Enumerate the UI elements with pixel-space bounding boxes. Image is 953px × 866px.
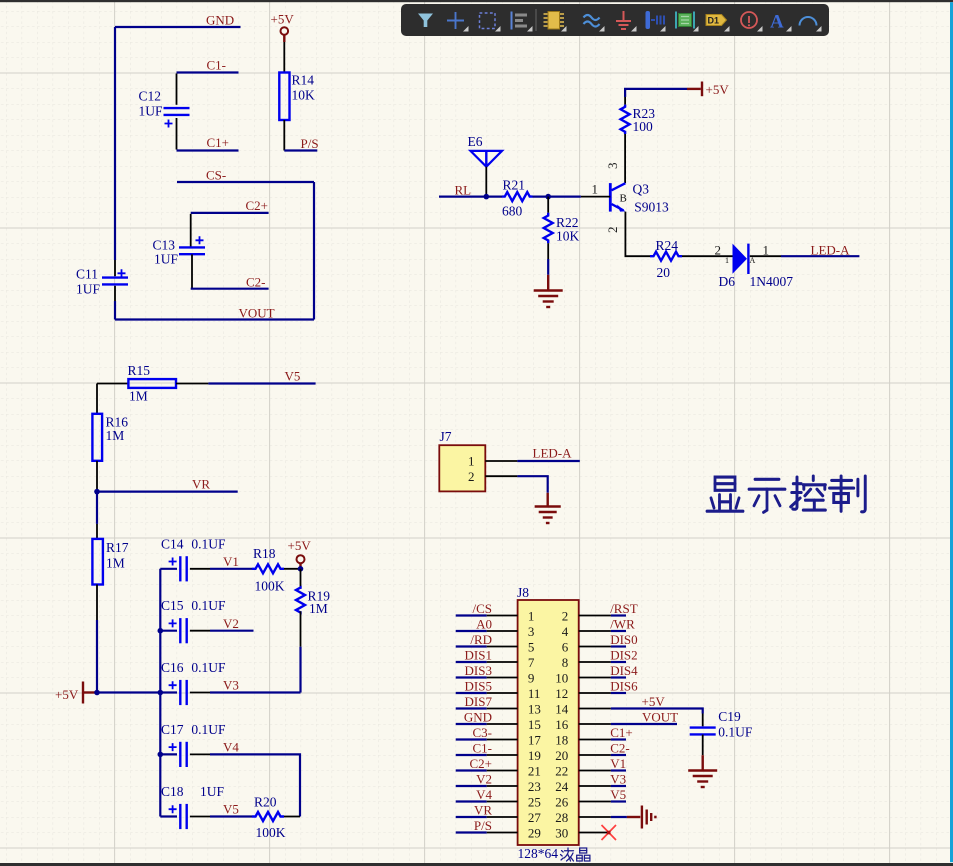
svg-text:12: 12 — [555, 686, 568, 701]
J8 pin number 13 — [528, 701, 541, 716]
J8 pin 29 wire — [456, 831, 518, 833]
svg-text:13: 13 — [528, 701, 541, 716]
net label DIS3 — [465, 663, 492, 678]
toolbar icon IC part — [544, 12, 565, 30]
resistor R15 — [97, 363, 208, 404]
svg-text:J7: J7 — [440, 429, 452, 444]
wire C1- net — [177, 71, 239, 73]
net label C1+ — [610, 725, 633, 740]
svg-text:C18: C18 — [161, 784, 184, 799]
J8 pin number 19 — [528, 748, 541, 763]
ground at pin 28 (rotated) — [627, 806, 656, 829]
wire left vertical — [114, 27, 116, 276]
svg-text:+5V: +5V — [271, 12, 295, 27]
svg-text:C1+: C1+ — [610, 725, 633, 740]
net label V4 — [476, 787, 492, 802]
net label DIS0 — [610, 632, 637, 647]
wire R18 to +5V — [284, 568, 301, 570]
svg-text:+5V: +5V — [288, 538, 312, 553]
J8 pin 26 wire — [579, 801, 626, 803]
emitter pin wire — [625, 212, 650, 257]
svg-text:16: 16 — [555, 717, 569, 732]
svg-text:D6: D6 — [719, 274, 736, 289]
wire C1+ net — [177, 149, 239, 151]
svg-text:17: 17 — [528, 732, 542, 747]
J8 pin 22 wire — [579, 770, 626, 772]
svg-text:1UF: 1UF — [76, 282, 100, 297]
svg-text:0.1UF: 0.1UF — [191, 660, 226, 675]
svg-text:/RST: /RST — [610, 601, 638, 616]
ground under C19 — [688, 755, 717, 787]
toolbar dropdown marks — [463, 26, 822, 32]
wire R22 to ground — [547, 259, 549, 275]
svg-text:100: 100 — [633, 119, 654, 134]
capacitor C13 — [153, 214, 206, 289]
base pin wire — [581, 196, 610, 198]
net label DIS2 — [610, 647, 637, 662]
svg-text:1: 1 — [592, 182, 599, 197]
J8 pin 19 wire — [456, 754, 518, 756]
svg-text:S9013: S9013 — [634, 200, 669, 215]
J8 pin number 29 — [528, 825, 541, 840]
net label C2- — [610, 740, 630, 755]
net label C2+ — [469, 756, 492, 771]
wire P/S net — [284, 149, 317, 151]
svg-text:C2-: C2- — [246, 275, 266, 290]
svg-text:1M: 1M — [129, 389, 148, 404]
J8 pin number 5 — [528, 639, 535, 654]
J8 pin number 21 — [528, 763, 541, 778]
wire C2- net — [191, 288, 269, 290]
toolbar icon filter funnel — [418, 14, 433, 28]
svg-text:2: 2 — [715, 243, 722, 258]
net label GND — [206, 13, 234, 28]
J7 pin2 wire — [485, 476, 547, 493]
svg-text:5: 5 — [528, 639, 535, 654]
svg-text:C17: C17 — [161, 722, 184, 737]
svg-text:1: 1 — [763, 243, 770, 258]
svg-text:A: A — [750, 256, 756, 265]
net label /RD — [470, 632, 492, 647]
wire +5V to bus — [97, 691, 160, 693]
svg-text:29: 29 — [528, 825, 541, 840]
toolbar icon align — [512, 12, 528, 30]
wire cap bus vertical — [159, 569, 161, 817]
svg-text:C19: C19 — [718, 709, 741, 724]
wire R21 to Q3 — [533, 196, 581, 198]
net label A0 — [476, 616, 492, 631]
svg-text:128*64: 128*64 — [518, 846, 559, 861]
J8 pin number 15 — [528, 717, 541, 732]
svg-text:E6: E6 — [468, 134, 483, 149]
J8 pin 15 wire — [456, 723, 518, 725]
J8 pin number 16 — [555, 717, 569, 732]
svg-text:20: 20 — [555, 748, 568, 763]
svg-text:6: 6 — [562, 639, 569, 654]
junction at R22 — [545, 194, 551, 200]
svg-text:LED-A: LED-A — [533, 446, 573, 461]
svg-text:C14: C14 — [161, 536, 184, 551]
J8 pin 25 wire — [456, 800, 518, 802]
toolbar icon D1 tag — [706, 15, 727, 26]
svg-text:R14: R14 — [292, 73, 315, 88]
svg-text:CS-: CS- — [206, 168, 226, 183]
svg-text:C2+: C2+ — [469, 756, 492, 771]
svg-text:9: 9 — [528, 670, 535, 685]
ground under J7 — [535, 493, 561, 523]
svg-text:R18: R18 — [253, 546, 276, 561]
svg-text:2: 2 — [605, 227, 620, 234]
svg-text:27: 27 — [528, 810, 542, 825]
capacitor C19 — [690, 709, 753, 755]
svg-text:V1: V1 — [223, 554, 239, 569]
J8 pin number 11 — [528, 686, 541, 701]
pin number 2 of D6 — [715, 243, 722, 258]
svg-text:11: 11 — [528, 686, 541, 701]
svg-text:VR: VR — [192, 477, 210, 492]
svg-text:R15: R15 — [128, 363, 151, 378]
wire R17 to +5V junction — [96, 620, 98, 693]
toolbar icon sheet part — [676, 12, 694, 29]
J8 pin number 7 — [528, 655, 535, 670]
J8 pin 20 wire — [579, 754, 626, 756]
antenna E6 — [468, 134, 503, 197]
svg-text:C16: C16 — [161, 660, 184, 675]
svg-text:J8: J8 — [517, 585, 529, 600]
svg-text:1UF: 1UF — [154, 252, 178, 267]
power +5V bar (left) — [55, 682, 97, 704]
connector J7 — [439, 429, 485, 491]
J8 pin 11 wire — [456, 692, 518, 694]
svg-text:V3: V3 — [610, 771, 626, 786]
svg-text:8: 8 — [562, 655, 569, 670]
svg-text:1M: 1M — [309, 601, 328, 616]
toolbar separator — [535, 9, 537, 31]
svg-text:15: 15 — [528, 717, 541, 732]
svg-text:DIS4: DIS4 — [610, 663, 638, 678]
svg-text:C2-: C2- — [610, 740, 630, 755]
svg-text:+5V: +5V — [55, 687, 79, 702]
J8 pin number 1 — [528, 608, 535, 623]
net label C1- — [473, 740, 493, 755]
J8 pin number 4 — [562, 624, 569, 639]
net label DIS6 — [610, 678, 638, 693]
svg-text:DIS3: DIS3 — [465, 663, 492, 678]
svg-text:23: 23 — [528, 779, 541, 794]
J8 pin 5 wire — [456, 645, 518, 647]
wire right vertical — [313, 182, 315, 320]
wire D6 to LED-A — [750, 255, 860, 257]
J8 pin 27 wire — [456, 816, 518, 818]
J8 pin number 10 — [555, 670, 568, 685]
J8 pin 9 wire — [456, 676, 518, 678]
toolbar icon power port — [616, 11, 631, 29]
svg-text:25: 25 — [528, 794, 541, 809]
svg-text:R20: R20 — [254, 795, 277, 810]
J8 pin number 8 — [562, 655, 569, 670]
svg-text:GND: GND — [464, 709, 492, 724]
J8 pin number 24 — [555, 779, 569, 794]
J8 pin number 12 — [555, 686, 568, 701]
transistor Q3 — [610, 182, 669, 215]
svg-text:100K: 100K — [256, 825, 286, 840]
net label VR — [192, 477, 210, 492]
net label V2 — [223, 616, 239, 631]
svg-text:DIS5: DIS5 — [465, 678, 492, 693]
net label V1 — [223, 554, 239, 569]
no-ERC marker X — [602, 825, 617, 840]
svg-text:V5: V5 — [610, 787, 626, 802]
toolbar icon selection rect — [480, 13, 496, 29]
J8 pin number 17 — [528, 732, 542, 747]
sheet border right (cyan) — [950, 2, 953, 862]
J8 pin number 26 — [555, 794, 569, 809]
wire to VOUT — [114, 301, 116, 320]
wire V3 row — [210, 691, 301, 693]
net label CS- — [206, 168, 226, 183]
net label RL — [455, 183, 472, 198]
capacitor C16 — [160, 660, 226, 705]
net label C1+ — [207, 135, 230, 150]
toolbar icon no-ERC — [741, 12, 757, 28]
J8 pin 10 wire — [579, 677, 626, 679]
junction VR — [94, 489, 100, 495]
svg-text:1N4007: 1N4007 — [750, 274, 794, 289]
net label P/S — [301, 136, 319, 151]
net label VR — [474, 802, 492, 817]
svg-text:V5: V5 — [285, 369, 301, 384]
ground under R22 — [534, 275, 563, 307]
J8 pin number 20 — [555, 748, 568, 763]
capacitor C14 — [160, 536, 226, 581]
resistor R22 — [544, 197, 580, 259]
net label V5 — [610, 787, 626, 802]
net label V1 — [610, 756, 626, 771]
resistor R17 — [92, 524, 128, 620]
net label V3 — [610, 771, 626, 786]
wire V5 row to R20 — [210, 815, 252, 817]
svg-text:A: A — [770, 12, 784, 33]
toolbar icon arc — [800, 17, 817, 26]
net label V5 — [285, 369, 301, 384]
J8 pin 30 wire — [579, 832, 607, 834]
resistor R14 — [279, 42, 315, 151]
svg-text:22: 22 — [555, 763, 568, 778]
J8 pin 6 wire — [579, 646, 626, 648]
svg-text:C1-: C1- — [207, 58, 227, 73]
svg-text:B: B — [620, 193, 627, 205]
net label V4 — [223, 740, 239, 755]
svg-text:C1-: C1- — [473, 740, 493, 755]
svg-text:RL: RL — [455, 183, 472, 198]
J8 pin 4 wire — [579, 630, 626, 632]
J8 pin 3 wire — [456, 630, 518, 632]
J8 pin 28 wire — [579, 816, 627, 818]
svg-text:P/S: P/S — [301, 136, 319, 151]
junction +5V left — [94, 690, 100, 696]
wire R19 bottom — [299, 647, 301, 693]
svg-text:1: 1 — [528, 608, 535, 623]
J8 pin 23 wire — [456, 785, 518, 787]
J8 pin 24 wire — [579, 785, 626, 787]
net label VOUT — [239, 306, 275, 321]
svg-text:V2: V2 — [476, 771, 492, 786]
svg-text:+5V: +5V — [706, 82, 730, 97]
svg-text:3: 3 — [605, 163, 620, 170]
net label DIS4 — [610, 663, 638, 678]
net label P/S — [474, 818, 492, 833]
svg-text:C3-: C3- — [473, 725, 493, 740]
svg-text:GND: GND — [206, 13, 234, 28]
net label C2+ — [246, 198, 269, 213]
J8 pin 18 wire — [579, 739, 626, 741]
svg-text:+5V: +5V — [642, 694, 666, 709]
svg-text:C15: C15 — [161, 598, 184, 613]
wire CS- net — [177, 181, 314, 183]
pin number 3 — [605, 163, 620, 170]
J8 pin 8 wire — [579, 661, 626, 663]
J8 pin 1 wire — [456, 614, 518, 616]
svg-text:4: 4 — [562, 624, 569, 639]
resistor R18 — [252, 546, 285, 594]
net label LED-A — [811, 243, 851, 258]
svg-text:7: 7 — [528, 655, 535, 670]
capacitor C18 — [160, 784, 224, 829]
resistor R19 — [296, 569, 330, 647]
svg-text:10: 10 — [555, 670, 568, 685]
wire VOUT net — [115, 318, 314, 320]
svg-text:0.1UF: 0.1UF — [718, 725, 753, 740]
net label V5 — [223, 802, 239, 817]
svg-text:V4: V4 — [476, 787, 492, 802]
svg-text:14: 14 — [555, 701, 569, 716]
svg-text:/CS: /CS — [472, 601, 492, 616]
wire R16 to R17 — [96, 492, 98, 524]
J8 pin number 25 — [528, 794, 541, 809]
J8 pin number 28 — [555, 810, 568, 825]
svg-text:V5: V5 — [223, 802, 239, 817]
net label V3 — [223, 678, 239, 693]
svg-text:28: 28 — [555, 810, 568, 825]
J8 pin number 14 — [555, 701, 569, 716]
toolbar icon signals — [584, 15, 600, 27]
J8 pin 2 wire — [579, 615, 626, 617]
svg-text:680: 680 — [502, 204, 523, 219]
wire V4 row — [210, 754, 300, 816]
svg-text:1UF: 1UF — [139, 104, 163, 119]
resistor R24 — [650, 238, 682, 280]
power +5V circle — [288, 538, 312, 567]
J8 pin number 18 — [555, 732, 568, 747]
svg-text:1M: 1M — [106, 428, 125, 443]
wire RL net — [439, 196, 502, 198]
svg-text:2: 2 — [468, 469, 475, 484]
svg-text:V1: V1 — [610, 756, 626, 771]
net label VOUT (J8) — [642, 709, 678, 724]
wire V5 net — [208, 382, 315, 384]
net label C2- — [246, 275, 266, 290]
J8 pin number 27 — [528, 810, 542, 825]
svg-text:10K: 10K — [556, 229, 580, 244]
svg-text:26: 26 — [555, 794, 569, 809]
toolbar icon text A — [770, 12, 784, 33]
svg-text:21: 21 — [528, 763, 541, 778]
junction C17 — [158, 752, 164, 758]
svg-text:24: 24 — [555, 779, 569, 794]
capacitor C15 — [160, 598, 226, 643]
capacitor C11 — [76, 267, 128, 302]
svg-text:R21: R21 — [503, 178, 526, 193]
net label DIS5 — [465, 678, 492, 693]
svg-text:DIS0: DIS0 — [610, 632, 637, 647]
svg-text:C2+: C2+ — [246, 198, 269, 213]
power +5V bar (top right) — [687, 82, 729, 98]
capacitor C12 — [139, 74, 190, 150]
wire V2 row — [210, 630, 254, 632]
junction C16 — [158, 690, 164, 696]
net label LED-A (J7) — [533, 446, 573, 461]
wire GND net — [115, 26, 241, 28]
svg-text:C13: C13 — [153, 238, 176, 253]
J8 pin number 3 — [528, 624, 535, 639]
pin number 2 — [605, 227, 620, 234]
svg-text:A0: A0 — [476, 616, 492, 631]
svg-text:/WR: /WR — [610, 616, 635, 631]
connector J8 — [517, 585, 579, 845]
top window edge — [0, 0, 953, 2]
svg-text:DIS6: DIS6 — [610, 678, 638, 693]
J8 pin 17 wire — [456, 738, 518, 740]
J8 pin 13 wire — [456, 707, 518, 709]
svg-text:0.1UF: 0.1UF — [191, 598, 226, 613]
diode D6 — [719, 244, 794, 289]
J8 pin number 22 — [555, 763, 568, 778]
svg-text:1UF: 1UF — [200, 784, 224, 799]
svg-text:30: 30 — [555, 825, 568, 840]
svg-text:C1+: C1+ — [207, 135, 230, 150]
text 显示控制 title — [707, 476, 865, 512]
power +5V top — [271, 12, 295, 43]
resistor R16 — [92, 384, 128, 492]
net label DIS7 — [465, 694, 493, 709]
svg-text:10K: 10K — [292, 88, 316, 103]
net label DIS1 — [465, 647, 492, 662]
svg-text:0.1UF: 0.1UF — [191, 536, 226, 551]
svg-text:Q3: Q3 — [633, 182, 650, 197]
svg-text:0.1UF: 0.1UF — [191, 722, 226, 737]
resistor R20 — [252, 795, 286, 841]
svg-text:VOUT: VOUT — [239, 306, 275, 321]
net label C3- — [473, 725, 493, 740]
net label GND — [464, 709, 492, 724]
wire +5V to R23 — [625, 89, 687, 97]
net label +5V (J8) — [642, 694, 666, 709]
svg-text:/RD: /RD — [470, 632, 492, 647]
svg-text:D1: D1 — [708, 16, 720, 26]
svg-text:LED-A: LED-A — [811, 243, 851, 258]
wire V1 row — [210, 568, 252, 570]
svg-text:V3: V3 — [223, 678, 239, 693]
svg-text:DIS2: DIS2 — [610, 647, 637, 662]
pin number 1 of D6 — [763, 243, 770, 258]
svg-text:18: 18 — [555, 732, 568, 747]
svg-text:DIS7: DIS7 — [465, 694, 493, 709]
wire R20 to corner — [284, 816, 300, 818]
J7 pin1 wire — [485, 460, 580, 462]
junction R19 top — [298, 566, 304, 572]
J8 pin 14 wire to +5V — [579, 709, 703, 714]
svg-text:VR: VR — [474, 802, 492, 817]
